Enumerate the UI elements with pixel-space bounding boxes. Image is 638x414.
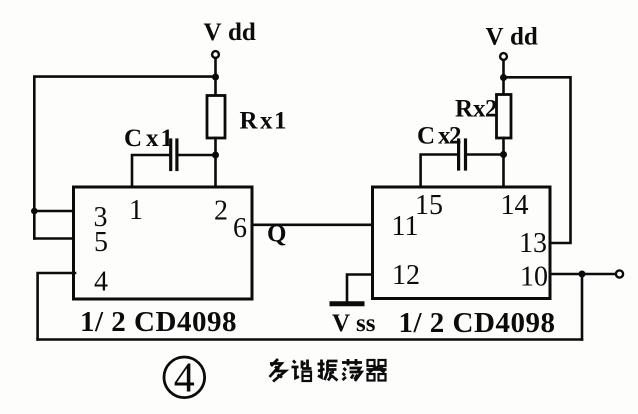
svg-text:1/ 2 CD4098: 1/ 2 CD4098 xyxy=(80,306,237,338)
terminal Vdd left (open circle) xyxy=(212,51,219,58)
svg-text:2: 2 xyxy=(214,196,228,227)
label 1/2 CD4098 right xyxy=(399,307,556,339)
wire bottom feedback xyxy=(38,338,582,341)
junction at Vdd left xyxy=(212,74,219,81)
svg-text:4: 4 xyxy=(174,356,195,402)
op-amp U1 half CD4098 (left box) xyxy=(74,187,253,299)
figure number circle 4 xyxy=(164,357,205,398)
svg-text:C: C xyxy=(124,125,142,152)
svg-text:C: C xyxy=(417,123,435,150)
label C x1 xyxy=(124,125,173,152)
terminal Vdd right (open circle) xyxy=(500,53,507,60)
svg-text:ss: ss xyxy=(356,310,376,337)
svg-text:11: 11 xyxy=(392,211,419,242)
svg-text:Q: Q xyxy=(267,221,286,248)
junction at Vdd right xyxy=(500,74,507,81)
node Vdd (right) label xyxy=(486,24,538,51)
wire node to pin 2 xyxy=(214,155,217,188)
wire Cx1 right plate to node xyxy=(177,154,216,157)
svg-text:2: 2 xyxy=(485,96,498,123)
svg-text:V: V xyxy=(204,19,222,46)
wire output to terminal xyxy=(582,273,616,276)
svg-text:12: 12 xyxy=(392,260,420,291)
caption 多谐振荡器 (multivibrator) xyxy=(270,359,387,382)
wire pin 4 feedback from bottom xyxy=(38,273,75,340)
capacitor C x2 xyxy=(459,140,466,169)
svg-text:2: 2 xyxy=(449,123,462,150)
junction at output xyxy=(579,271,586,278)
wire Cx2 left plate to pin 15 xyxy=(421,155,457,189)
wire to pin 5 xyxy=(34,237,75,240)
wire top-left feedback from Vdd to pins 3 and 5 xyxy=(34,77,215,239)
svg-text:R: R xyxy=(240,108,259,135)
junction Rx1/Cx1 node xyxy=(212,152,219,159)
wire pin 12 to Vss ground xyxy=(347,275,373,302)
wire Vdd to resistor R x2 xyxy=(502,78,505,95)
label 1/2 CD4098 left xyxy=(80,306,237,338)
svg-text:x: x xyxy=(260,108,273,135)
svg-text:1/ 2 CD4098: 1/ 2 CD4098 xyxy=(399,307,556,339)
svg-text:1: 1 xyxy=(274,108,287,135)
resistor R x2 xyxy=(497,95,512,139)
svg-text:1: 1 xyxy=(129,195,143,226)
wire resistor R x1 to node xyxy=(214,138,217,155)
wire Cx2 right plate to node xyxy=(467,153,504,156)
wire to pin 3 xyxy=(34,210,75,213)
char zhen 振 xyxy=(318,360,338,381)
svg-text:14: 14 xyxy=(501,190,529,221)
svg-text:V: V xyxy=(486,24,504,51)
wire Q output pin6 to pin 11 xyxy=(252,224,373,227)
node Q label xyxy=(267,221,286,248)
svg-text:dd: dd xyxy=(510,24,538,51)
wire resistor R x2 to node xyxy=(502,138,505,155)
capacitor C x1 xyxy=(171,140,177,170)
char xie 谐 xyxy=(292,360,312,382)
svg-text:4: 4 xyxy=(94,267,108,298)
svg-text:1: 1 xyxy=(161,125,174,152)
char dang 荡 xyxy=(342,359,362,381)
svg-text:10: 10 xyxy=(520,262,548,293)
svg-text:x: x xyxy=(146,125,159,152)
svg-text:V: V xyxy=(332,310,350,337)
junction Rx2/Cx2 node xyxy=(500,151,507,158)
wire Vdd to resistor R x1 xyxy=(214,77,217,96)
svg-text:13: 13 xyxy=(519,228,547,259)
char duo 多 xyxy=(270,359,286,382)
wire pin 10 output xyxy=(550,273,582,276)
label R x2 xyxy=(455,96,498,123)
label R x1 xyxy=(240,108,287,135)
wire Vdd stem left xyxy=(214,58,217,77)
svg-text:R: R xyxy=(455,96,474,123)
wire Vdd right to pin 13 loop xyxy=(504,77,571,243)
terminal output (open circle) xyxy=(616,270,623,277)
junction at pin3 tap xyxy=(31,208,38,215)
node Vdd (left) label xyxy=(204,19,256,46)
wire node to pin 14 xyxy=(502,155,505,189)
wire Cx1 left plate to pin 1 xyxy=(132,155,169,188)
ground Vss bar xyxy=(332,301,362,306)
svg-text:6: 6 xyxy=(233,213,247,244)
svg-text:dd: dd xyxy=(228,19,256,46)
label C x2 xyxy=(417,123,462,150)
resistor R x1 xyxy=(207,96,225,139)
label V ss xyxy=(332,310,376,337)
svg-text:15: 15 xyxy=(415,190,443,221)
char qi 器 xyxy=(367,360,387,381)
svg-text:5: 5 xyxy=(94,227,108,258)
wire Vdd stem right xyxy=(502,60,505,77)
wire output feedback down xyxy=(581,274,584,340)
op-amp U2 half CD4098 (right box) xyxy=(373,187,551,299)
